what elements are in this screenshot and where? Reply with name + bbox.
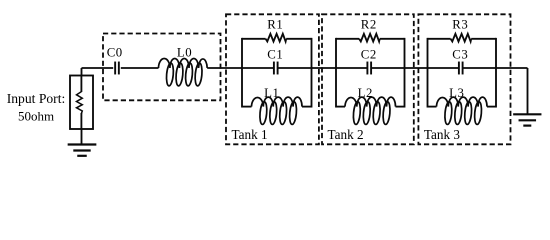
svg-text:C1: C1 xyxy=(267,48,283,62)
svg-text:L3: L3 xyxy=(449,86,464,100)
svg-text:C0: C0 xyxy=(107,46,123,60)
svg-text:50ohm: 50ohm xyxy=(18,108,54,123)
svg-text:Tank 1: Tank 1 xyxy=(232,127,268,142)
svg-text:Tank 2: Tank 2 xyxy=(328,127,364,142)
svg-text:L2: L2 xyxy=(358,86,373,100)
svg-text:Tank 3: Tank 3 xyxy=(424,127,460,142)
svg-text:R3: R3 xyxy=(452,18,468,32)
svg-text:C3: C3 xyxy=(452,48,468,62)
svg-text:R2: R2 xyxy=(361,18,377,32)
svg-text:L0: L0 xyxy=(177,46,192,60)
svg-text:R1: R1 xyxy=(267,18,283,32)
svg-text:L1: L1 xyxy=(264,86,279,100)
svg-text:C2: C2 xyxy=(361,48,377,62)
svg-text:Input Port:: Input Port: xyxy=(7,91,66,106)
